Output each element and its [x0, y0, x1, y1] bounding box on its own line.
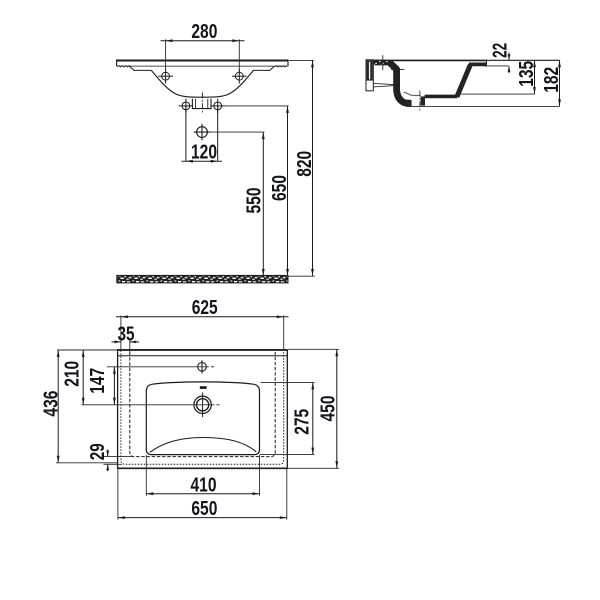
tap hole center [194, 124, 211, 141]
bracket hook lines [374, 83, 399, 87]
mounting hole left [158, 69, 173, 84]
svg-text:135: 135 [516, 61, 538, 87]
bowl inner bottom line [404, 92, 421, 96]
arrow 182 top [558, 60, 561, 67]
cabinet bottom edge emphasis [117, 467, 287, 469]
bowl bottom section right of drain [425, 95, 458, 99]
arrow 120 right [211, 160, 218, 163]
svg-text:450: 450 [318, 396, 340, 422]
arrow 280 left [166, 39, 173, 42]
arrow 650 plan right [280, 516, 287, 519]
dim line 550 [262, 132, 264, 276]
drain lip [406, 102, 412, 107]
extension 280 left [165, 39, 167, 72]
hidden outline B dashed [130, 352, 275, 457]
basin front wall section [389, 62, 411, 103]
right serration marks [275, 66, 287, 67]
dim line 820 [312, 60, 314, 276]
arrow 147 bottom [113, 398, 116, 405]
drain hole plan [194, 393, 211, 418]
svg-text:35: 35 [118, 323, 135, 345]
svg-text:280: 280 [191, 21, 217, 43]
arrow 182 bottom [558, 99, 561, 106]
bowl back diagonal section [457, 65, 470, 97]
extension 410 right [259, 455, 261, 496]
wall hole tick [391, 68, 404, 70]
siphon hole right [210, 99, 225, 114]
hidden outline A dotted [121, 350, 284, 464]
basin inner outline [146, 382, 259, 455]
dim 29 arrows [104, 450, 134, 472]
extension top left [57, 349, 118, 351]
arrow 550 top [262, 132, 265, 139]
arrow 550 bottom [262, 269, 265, 276]
inner top line [118, 355, 288, 357]
bracket screw centerline [379, 55, 388, 70]
extension 625 right [283, 315, 285, 350]
arrow 275 top [311, 382, 314, 389]
arrow 650 top [286, 106, 289, 113]
svg-text:275: 275 [291, 409, 313, 435]
extension 450 top [288, 348, 339, 350]
pedestal left edge [185, 106, 187, 161]
rim right end [486, 60, 488, 67]
arrow 436 bottom [57, 456, 60, 463]
arrow 280 right [232, 39, 239, 42]
dim 22 arrows [508, 53, 511, 73]
svg-text:650: 650 [269, 175, 291, 201]
dim line 450 [336, 349, 338, 468]
cabinet outline [118, 350, 288, 469]
extension 275 top [261, 381, 315, 383]
overflow slot [200, 386, 207, 389]
dim line 436 [57, 350, 59, 463]
arrow 436 top [57, 350, 60, 357]
extension line 820 top [289, 59, 314, 61]
arrow 120 left [186, 160, 193, 163]
extension 280 right [238, 39, 240, 72]
rim back section cap [469, 63, 487, 67]
dim line 625 [116, 316, 289, 318]
extension 275 bottom [260, 454, 315, 456]
drain housing inner walls [196, 99, 208, 109]
dim line 650 plan [118, 517, 287, 519]
drain housing [192, 99, 211, 109]
bowl belly curve [151, 70, 253, 97]
dim line 135 [534, 60, 536, 94]
slab right end edge [287, 59, 289, 66]
arrow 135 bottom [533, 87, 536, 94]
drain step block [421, 96, 425, 105]
arrow 135 top [533, 60, 536, 67]
left serration marks [117, 66, 130, 67]
arrow 147 top [113, 367, 116, 374]
extension line 550 top [210, 131, 264, 133]
svg-text:410: 410 [191, 474, 217, 496]
wall bracket [366, 60, 373, 91]
svg-text:22: 22 [489, 43, 511, 58]
extension line bottom 182 [406, 105, 560, 107]
arrow 820 top [311, 60, 314, 67]
svg-text:120: 120 [191, 141, 217, 163]
arrow 210 top [82, 350, 85, 357]
extension 450 bottom [288, 467, 339, 469]
extension 650 right [286, 469, 288, 520]
extension line 22 bottom [484, 65, 509, 67]
dim 35 arrows [112, 339, 140, 353]
extension 625 left [120, 315, 122, 350]
extension line top right [487, 59, 560, 61]
rim cut section band [374, 60, 392, 66]
svg-text:436: 436 [41, 391, 63, 417]
svg-text:182: 182 [541, 67, 563, 93]
arrow 650 bottom [286, 269, 289, 276]
tap hole extension line [107, 366, 209, 368]
arrow 275 bottom [311, 448, 314, 455]
basin front inner arc [150, 438, 256, 453]
drain hole extension line [82, 404, 215, 406]
arrow 625 right [277, 315, 284, 318]
slab bottom edge [117, 65, 288, 67]
arrow 210 bottom [82, 398, 85, 405]
dim line 120 [182, 160, 223, 162]
cabinet top edge thick [117, 349, 287, 351]
arrow 650 plan left [118, 516, 125, 519]
drain centerline [419, 91, 421, 112]
tap hole plan [198, 360, 207, 373]
extension 410 left [145, 455, 147, 496]
arrow 450 top [335, 349, 338, 356]
arrow 450 bottom [335, 461, 338, 468]
rim top edge [374, 59, 487, 61]
dim line 147 [113, 367, 115, 405]
mounting hole right [232, 69, 247, 84]
slab left end edge [116, 59, 118, 66]
extension 436 bottom [56, 462, 118, 464]
arrow 625 left [121, 315, 128, 318]
svg-text:29: 29 [87, 443, 109, 460]
dim line 210 [82, 350, 84, 405]
floor hatched bar [117, 275, 315, 283]
basin top slab upper edge [117, 60, 289, 62]
dim line 182 [559, 60, 561, 106]
svg-text:210: 210 [62, 361, 84, 387]
svg-text:147: 147 [87, 368, 109, 394]
arrow 410 left [146, 492, 153, 495]
dim line 650 [287, 106, 289, 276]
svg-text:820: 820 [294, 151, 316, 177]
arrow 820 bottom [311, 269, 314, 276]
svg-text:625: 625 [192, 297, 218, 319]
extension 650 left [117, 469, 119, 520]
arrow 410 right [253, 492, 260, 495]
svg-text:550: 550 [243, 188, 265, 214]
svg-text:650: 650 [191, 498, 217, 520]
extension line 650 top [225, 105, 289, 107]
dim line 275 [312, 382, 314, 454]
left apron step [130, 66, 152, 70]
pedestal right edge [217, 106, 219, 161]
extension line bottom 135 [457, 93, 535, 95]
dim line 280 [161, 40, 245, 42]
siphon hole left [179, 99, 194, 114]
vertical centerline [201, 93, 203, 115]
dim line 410 [146, 493, 259, 495]
right apron step [253, 66, 274, 70]
